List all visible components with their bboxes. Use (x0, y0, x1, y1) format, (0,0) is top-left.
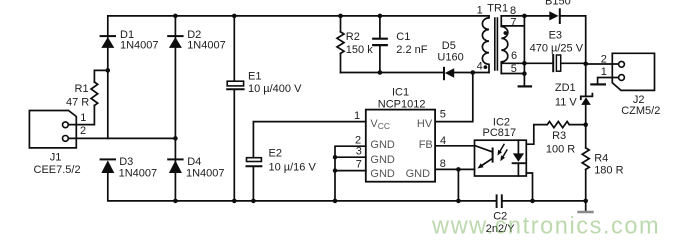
svg-text:6: 6 (511, 50, 517, 62)
svg-text:4: 4 (440, 135, 446, 147)
svg-text:GND: GND (370, 139, 395, 151)
svg-text:R4: R4 (594, 153, 608, 165)
svg-text:10 µ/400 V: 10 µ/400 V (248, 83, 302, 95)
svg-text:5: 5 (511, 63, 517, 75)
svg-text:100 R: 100 R (546, 143, 575, 155)
svg-text:1: 1 (80, 112, 86, 124)
svg-text:R1: R1 (75, 83, 89, 95)
svg-text:5: 5 (440, 109, 446, 121)
svg-text:B150: B150 (545, 0, 571, 7)
svg-text:TR1: TR1 (487, 2, 508, 14)
svg-text:GND: GND (406, 168, 431, 180)
svg-text:www.cntronics.com: www.cntronics.com (431, 214, 660, 240)
svg-text:E1: E1 (248, 71, 261, 83)
svg-text:U160: U160 (437, 52, 463, 64)
svg-text:HV: HV (417, 118, 433, 130)
svg-text:1: 1 (601, 66, 607, 78)
svg-text:IC1: IC1 (392, 86, 409, 98)
svg-text:2: 2 (601, 54, 607, 66)
svg-text:2.2 nF: 2.2 nF (396, 44, 427, 56)
svg-text:CEE7.5/2: CEE7.5/2 (34, 164, 81, 176)
svg-text:1N4007: 1N4007 (119, 167, 158, 179)
svg-text:11 V: 11 V (555, 97, 577, 109)
svg-text:GND: GND (370, 168, 395, 180)
svg-text:1N4007: 1N4007 (187, 40, 226, 52)
svg-text:J1: J1 (50, 151, 62, 163)
svg-text:8: 8 (440, 158, 446, 170)
svg-text:NCP1012: NCP1012 (378, 99, 426, 111)
svg-text:180 R: 180 R (594, 164, 623, 176)
svg-text:CZM5/2: CZM5/2 (621, 105, 660, 117)
svg-text:3: 3 (356, 146, 362, 158)
svg-text:GND: GND (370, 154, 395, 166)
svg-text:150 k: 150 k (346, 44, 373, 56)
svg-text:D4: D4 (187, 156, 201, 168)
svg-text:D5: D5 (442, 40, 456, 52)
svg-text:PC817: PC817 (483, 127, 517, 139)
svg-text:VCC: VCC (370, 118, 390, 131)
svg-text:E3: E3 (549, 30, 562, 42)
svg-text:C1: C1 (396, 31, 410, 43)
svg-text:10 µ/16 V: 10 µ/16 V (269, 162, 317, 174)
svg-text:4: 4 (477, 61, 483, 73)
svg-text:FB: FB (419, 139, 433, 151)
svg-text:E2: E2 (269, 147, 282, 159)
svg-text:1N4007: 1N4007 (186, 167, 225, 179)
svg-text:1: 1 (354, 110, 360, 122)
svg-text:ZD1: ZD1 (555, 82, 576, 94)
svg-text:2: 2 (80, 125, 86, 137)
svg-text:1N4007: 1N4007 (120, 40, 159, 52)
svg-text:47 R: 47 R (66, 96, 89, 108)
svg-text:7: 7 (510, 16, 516, 28)
svg-text:R2: R2 (346, 31, 360, 43)
svg-text:8: 8 (510, 5, 516, 17)
svg-text:D3: D3 (119, 156, 133, 168)
svg-text:470 µ/25 V: 470 µ/25 V (530, 43, 584, 55)
svg-text:R3: R3 (552, 130, 566, 142)
svg-text:7: 7 (356, 159, 362, 171)
svg-text:1: 1 (477, 5, 483, 17)
